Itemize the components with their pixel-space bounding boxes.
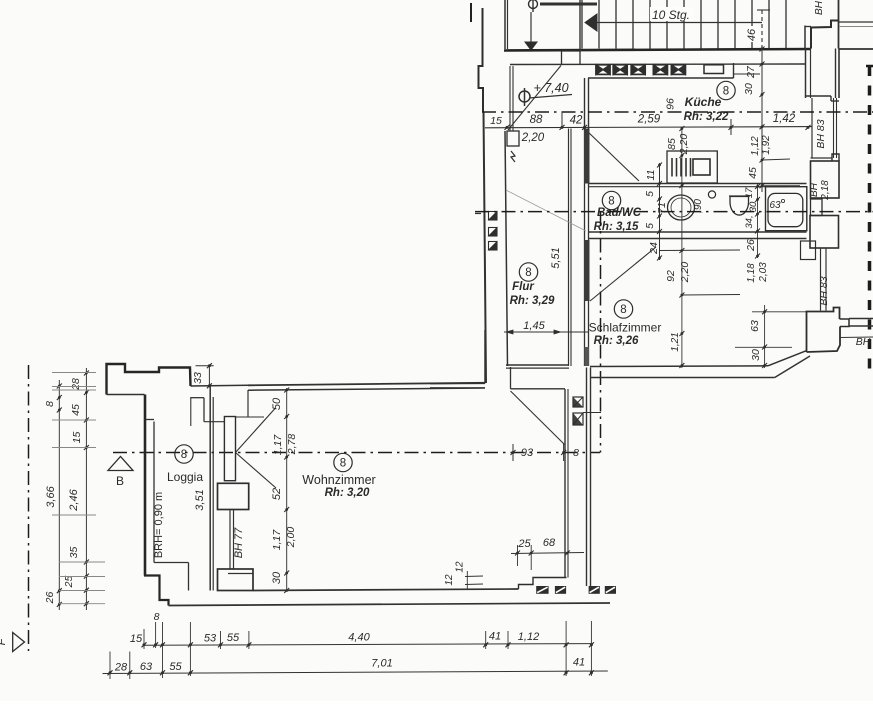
corridor hatch pointer	[583, 412, 601, 414]
left inner wall mid	[505, 131, 508, 366]
svg-text:55: 55	[227, 632, 240, 644]
F marker triangle	[13, 633, 25, 652]
schlafzimmer bottom wall	[590, 365, 768, 368]
left outer wall upper	[479, 8, 484, 112]
wall hatch sq 1	[489, 212, 498, 221]
svg-text:45: 45	[70, 404, 82, 416]
svg-text:26: 26	[745, 239, 757, 252]
svg-text:15: 15	[130, 633, 143, 645]
svg-text:55: 55	[169, 661, 182, 673]
svg-text:1,12: 1,12	[518, 631, 539, 643]
loggia bottom steps	[144, 576, 169, 606]
svg-text:30: 30	[743, 83, 755, 95]
svg-text:27: 27	[745, 65, 757, 79]
entry door jambs	[509, 66, 511, 131]
kitchen top window rect	[704, 65, 724, 74]
chain659	[659, 163, 661, 260]
stair arrow shaft bottom	[530, 12, 532, 42]
right wall upper	[835, 49, 837, 99]
dim 46 extension	[757, 9, 770, 11]
bad bottom wall	[589, 231, 807, 233]
glass block row	[596, 65, 610, 75]
bad window pilaster	[810, 216, 839, 249]
svg-text:12: 12	[455, 561, 466, 573]
corridor hatch sq 2	[573, 413, 583, 425]
stair wall line B	[510, 63, 806, 66]
party wall right	[849, 318, 873, 320]
svg-text:2,20: 2,20	[521, 132, 545, 144]
kitchen door swing	[587, 131, 640, 182]
stair treads	[581, 0, 583, 49]
wall edge niche	[191, 384, 249, 387]
svg-text:8: 8	[181, 449, 187, 461]
bathtub surround	[766, 187, 807, 231]
corner pier	[807, 308, 840, 353]
svg-text:3,66: 3,66	[45, 485, 57, 507]
lightning	[511, 151, 515, 162]
washbasin	[668, 195, 695, 220]
svg-text:11: 11	[645, 170, 657, 181]
partition upper detail	[190, 397, 204, 399]
section line bad horiz	[475, 211, 873, 213]
corridor door swing	[511, 391, 565, 445]
dim 46 label	[748, 26, 760, 42]
svg-text:Loggia: Loggia	[167, 470, 203, 484]
svg-text:1,92: 1,92	[761, 135, 772, 155]
loggia circle 8	[175, 445, 193, 463]
chain764	[764, 305, 766, 368]
chain682	[681, 129, 683, 369]
svg-text:52: 52	[271, 488, 283, 500]
flur right wall thin	[568, 129, 570, 367]
loggia left wall outer	[144, 395, 147, 576]
kitchen west wall upper	[584, 78, 586, 130]
kitchen stove outer	[667, 151, 717, 183]
svg-text:Rh: 3,22: Rh: 3,22	[684, 111, 729, 123]
svg-text:50: 50	[271, 397, 283, 410]
svg-text:2,18: 2,18	[820, 180, 831, 201]
svg-text:BH: BH	[814, 0, 825, 15]
bathtub	[768, 193, 803, 226]
chain757	[757, 184, 759, 258]
svg-text:2,00: 2,00	[285, 527, 297, 549]
section line B horiz	[113, 452, 600, 454]
svg-text:12: 12	[444, 574, 455, 586]
svg-text:85: 85	[666, 138, 678, 150]
landing right wall	[804, 26, 806, 49]
dim 33	[196, 365, 214, 367]
upper-lower junction	[484, 330, 486, 383]
svg-text:45: 45	[747, 167, 759, 179]
svg-text:Rh: 3,26: Rh: 3,26	[594, 335, 639, 347]
svg-text:5: 5	[644, 223, 656, 229]
kitchen hatch strokes	[671, 158, 673, 177]
top-right pilaster	[811, 21, 839, 49]
flur wall below door	[585, 347, 590, 366]
svg-text:8: 8	[620, 304, 626, 316]
left chain2	[85, 368, 87, 610]
svg-text:1,21: 1,21	[670, 332, 681, 351]
svg-text:35: 35	[68, 547, 80, 559]
svg-text:BH 83: BH 83	[815, 119, 827, 148]
pier lower	[218, 569, 254, 591]
bottom filled rects	[536, 586, 548, 594]
kitchen top wall bottom line	[588, 77, 734, 79]
svg-text:25: 25	[63, 576, 75, 589]
corridor right wall	[586, 368, 588, 587]
svg-text:88: 88	[530, 114, 543, 126]
svg-text:BH: BH	[809, 182, 820, 197]
svg-text:8: 8	[340, 458, 346, 470]
bottom wall outer	[169, 603, 611, 606]
dim row1 ext	[730, 119, 732, 135]
small pier bad window	[811, 199, 823, 216]
scan crease	[506, 190, 586, 231]
svg-text:28: 28	[70, 378, 82, 391]
loggia top-left wall	[107, 364, 191, 395]
corridor left wall	[564, 389, 566, 578]
rowB line	[103, 671, 608, 674]
svg-text:Bad/WC: Bad/WC	[597, 207, 642, 219]
bottom wall inner	[253, 589, 519, 591]
bay diagonal	[768, 351, 806, 366]
label 10 Stg	[650, 7, 693, 21]
datum circle top	[529, 0, 538, 9]
top thick line	[540, 3, 597, 6]
svg-text:30: 30	[750, 349, 762, 361]
kitchen window sill	[811, 157, 833, 159]
corridor hatch sq 1	[573, 397, 583, 407]
schlafzimmer door swing	[590, 247, 656, 301]
datum marker +7,40	[519, 91, 530, 102]
svg-text:Rh: 3,20: Rh: 3,20	[325, 487, 370, 499]
svg-text:34,: 34,	[744, 215, 755, 228]
svg-text:BH 77: BH 77	[233, 527, 245, 558]
kitchen window glazing	[811, 98, 813, 158]
loggia top inner line	[107, 394, 145, 396]
bad top wall	[589, 183, 807, 185]
svg-text:30: 30	[271, 571, 283, 584]
svg-text:1,12: 1,12	[750, 136, 761, 156]
svg-text:24: 24	[648, 242, 660, 255]
svg-text:8: 8	[525, 267, 531, 279]
svg-text:53: 53	[204, 633, 217, 645]
kitchen circle 8	[717, 81, 735, 99]
svg-text:1,17: 1,17	[271, 529, 283, 551]
svg-text:92: 92	[665, 270, 677, 282]
svg-text:Rh: 3,29: Rh: 3,29	[510, 295, 555, 307]
svg-text:15: 15	[71, 432, 83, 444]
svg-text:42: 42	[570, 115, 583, 127]
svg-text:2,03: 2,03	[758, 262, 769, 283]
svg-text:2,59: 2,59	[637, 114, 661, 126]
dim vertical guides	[109, 652, 111, 680]
stair wall line A	[504, 49, 811, 51]
left outer wall lower	[484, 112, 487, 383]
flur kitchen wall lines	[584, 129, 586, 367]
loggia door frame	[224, 417, 235, 481]
kitchen stove inner	[693, 159, 710, 175]
svg-text:28: 28	[114, 662, 128, 674]
right dashed boundary	[868, 66, 872, 371]
left inner wall top	[504, 0, 506, 49]
svg-text:33: 33	[192, 372, 204, 384]
svg-text:8: 8	[44, 401, 56, 407]
loggia inner sill	[154, 562, 189, 564]
svg-text:4,40: 4,40	[348, 632, 370, 644]
vestibule	[510, 367, 512, 389]
svg-text:Küche: Küche	[685, 95, 722, 109]
svg-text:1,18: 1,18	[746, 263, 757, 283]
loggia left step	[145, 419, 155, 421]
wall hatch sq 2	[489, 228, 498, 237]
svg-text:Flur: Flur	[512, 281, 534, 293]
wall hatch sq 3	[489, 242, 498, 251]
svg-text:41: 41	[573, 657, 585, 669]
party wall lines right	[839, 21, 873, 23]
svg-text:30: 30	[748, 201, 759, 212]
dim node 46	[760, 47, 763, 50]
svg-text:8: 8	[723, 86, 729, 98]
left chain1	[58, 380, 60, 610]
landing niche	[562, 51, 581, 65]
flur kitchen wall dark A	[584, 129, 590, 184]
svg-text:93: 93	[521, 447, 534, 459]
dim row1 line	[485, 127, 812, 128]
svg-text:8: 8	[154, 611, 160, 623]
svg-text:2,78: 2,78	[286, 434, 298, 456]
svg-text:,90: ,90	[693, 199, 704, 213]
svg-text:2,20: 2,20	[678, 134, 690, 156]
section line F vert	[28, 365, 30, 651]
svg-text:17: 17	[744, 187, 755, 198]
sq 2,20 symbol	[507, 131, 519, 146]
bh77 window lines	[229, 510, 231, 570]
svg-text:10 Stg.: 10 Stg.	[652, 8, 690, 22]
entry door swing	[508, 66, 561, 131]
door stop circle	[708, 191, 715, 198]
flur circle 8	[519, 263, 537, 281]
svg-text:25: 25	[517, 538, 531, 550]
dim row1 ticks	[505, 125, 510, 130]
bad circle 8	[602, 191, 620, 209]
rowA ticks	[142, 642, 147, 647]
svg-text:8: 8	[573, 447, 579, 459]
chain762	[761, 49, 763, 192]
svg-text:46: 46	[746, 28, 758, 41]
svg-text:71: 71	[656, 202, 668, 214]
svg-text:68: 68	[543, 537, 556, 549]
stair arrow head	[585, 14, 597, 31]
svg-text:1,17: 1,17	[272, 434, 284, 456]
svg-text:2,46: 2,46	[68, 488, 80, 511]
dim 50-117-200 chain	[286, 388, 288, 591]
kitchen right wall	[805, 49, 807, 99]
section line A horiz	[482, 111, 873, 113]
loggia door swing	[236, 409, 276, 453]
svg-text:2,20: 2,20	[679, 262, 691, 284]
radiator rect	[801, 241, 816, 260]
bottom wall step right	[519, 578, 567, 590]
svg-text:1,45: 1,45	[523, 320, 545, 332]
svg-text:1,42: 1,42	[773, 113, 796, 125]
svg-text:41: 41	[489, 631, 501, 643]
svg-text:15: 15	[490, 115, 502, 127]
svg-text:63: 63	[140, 661, 153, 673]
section line B vert	[600, 212, 602, 453]
kitchen top wall jog	[733, 63, 735, 78]
stair direction line	[596, 22, 762, 24]
pier upper	[218, 483, 249, 509]
svg-text:5: 5	[644, 191, 656, 197]
svg-text:BH 83: BH 83	[818, 276, 830, 305]
svg-text:B: B	[116, 474, 124, 488]
svg-text:96: 96	[665, 98, 677, 110]
svg-text:5,51: 5,51	[550, 247, 562, 268]
pilaster BH218	[811, 161, 840, 198]
svg-text:26: 26	[44, 592, 56, 605]
svg-text:3,51: 3,51	[194, 489, 206, 510]
schlafzimmer circle 8	[614, 300, 632, 318]
kitchen right jog	[806, 95, 831, 97]
svg-text:63: 63	[749, 320, 761, 332]
wohnzimmer circle 8	[334, 453, 352, 471]
flur kitchen wall dark B	[584, 240, 590, 301]
svg-text:Schlafzimmer: Schlafzimmer	[589, 321, 662, 335]
wohnzimmer top wall	[248, 383, 485, 386]
rowA line	[144, 644, 592, 646]
svg-text:7,01: 7,01	[371, 658, 392, 670]
schlafzimmer window glazing	[820, 248, 822, 311]
left ext lines	[52, 372, 96, 374]
party wall top	[838, 0, 840, 49]
chain682 ext	[660, 249, 740, 252]
svg-text:BH: BH	[856, 336, 871, 348]
svg-text:Wohnzimmer: Wohnzimmer	[302, 473, 375, 487]
svg-text:BRH= 0,90 m: BRH= 0,90 m	[153, 492, 165, 558]
svg-text:63: 63	[769, 200, 781, 211]
rowB ticks	[108, 670, 113, 675]
svg-text:8: 8	[608, 196, 614, 208]
door niche lines	[247, 390, 249, 417]
left wall top mark	[470, 3, 472, 22]
flur bottom wall	[506, 364, 569, 366]
B marker triangle	[108, 457, 133, 471]
wc toilet	[730, 197, 749, 216]
partition long lines	[209, 386, 211, 591]
stair arrow down	[525, 42, 537, 50]
